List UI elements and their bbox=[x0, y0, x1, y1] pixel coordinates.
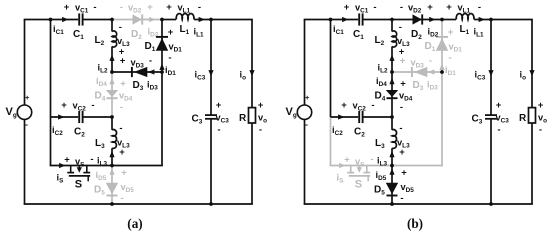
svg-text:D3: D3 bbox=[133, 80, 144, 92]
inductor L1 (b) bbox=[456, 14, 474, 37]
label vL3 of L3 (b) bbox=[397, 123, 410, 158]
wire switch row (a) bbox=[50, 165, 112, 167]
capacitor C1 (b) bbox=[353, 13, 364, 41]
svg-text:+: + bbox=[258, 100, 264, 111]
svg-text:-: - bbox=[198, 2, 201, 13]
node C1-L2 junction (b) bbox=[390, 18, 394, 22]
svg-text:io: io bbox=[520, 70, 527, 82]
current arrow iC1 (b) bbox=[333, 17, 349, 36]
label + vD5 - (b) bbox=[400, 168, 414, 205]
label + vS - (b) bbox=[344, 154, 373, 169]
wire bottom rail (b) bbox=[304, 203, 533, 205]
svg-text:Vg: Vg bbox=[286, 106, 297, 119]
svg-text:+: + bbox=[344, 2, 350, 13]
svg-text:C2: C2 bbox=[74, 127, 85, 139]
svg-text:-: - bbox=[400, 2, 403, 13]
svg-text:-: - bbox=[91, 100, 94, 111]
resistor R (a) bbox=[239, 108, 256, 124]
node C3-bottom junction (a) bbox=[209, 202, 213, 206]
current arrow iD5 (b) bbox=[376, 168, 395, 182]
wire top-left from Vg to C1 left plate (b) bbox=[304, 19, 359, 21]
svg-text:iD1: iD1 bbox=[165, 65, 176, 77]
label + vo - (a) bbox=[258, 100, 267, 136]
svg-text:+: + bbox=[341, 100, 347, 111]
wire C2 row right (a) bbox=[83, 116, 112, 118]
current arrow iD1 (b) bbox=[439, 64, 456, 78]
svg-text:(b): (b) bbox=[407, 216, 423, 231]
svg-text:L2: L2 bbox=[375, 35, 385, 47]
svg-text:-: - bbox=[119, 22, 122, 33]
diode D2 (b) bbox=[411, 14, 422, 41]
diode D4 (b) bbox=[375, 90, 399, 103]
current arrow iD4 (b) bbox=[376, 76, 395, 88]
wire Vg column lower (b) bbox=[304, 119, 306, 204]
svg-text:C2: C2 bbox=[354, 127, 365, 139]
wire C3 branch upper (a) bbox=[210, 20, 212, 115]
wire C1 right plate to node (b) bbox=[363, 19, 392, 21]
svg-text:+: + bbox=[120, 79, 126, 90]
svg-text:C1: C1 bbox=[353, 29, 364, 41]
node L1-C3 junction (b) bbox=[489, 18, 493, 22]
svg-text:+: + bbox=[166, 2, 172, 13]
svg-text:iD5: iD5 bbox=[376, 170, 387, 182]
label - vD2 + (a) bbox=[120, 2, 153, 15]
wire C3 branch lower (a) bbox=[210, 119, 212, 204]
svg-text:-: - bbox=[371, 100, 374, 111]
wire middle column to L2 (a) bbox=[111, 20, 113, 32]
svg-text:+: + bbox=[25, 93, 30, 102]
capacitor C3 (b) bbox=[472, 114, 498, 126]
label + vD4 - (a) bbox=[119, 79, 133, 114]
svg-text:-: - bbox=[373, 2, 376, 13]
wire L1 to top-right corner (b) bbox=[474, 19, 533, 21]
svg-text:iD4: iD4 bbox=[96, 76, 107, 88]
wire middle column to L2 (b) bbox=[391, 20, 393, 32]
svg-text:vC1: vC1 bbox=[75, 3, 89, 15]
current arrow iD1 (a) bbox=[159, 64, 176, 78]
current arrow iD3 (b) bbox=[427, 69, 438, 91]
svg-text:iC3: iC3 bbox=[195, 70, 206, 82]
svg-text:L3: L3 bbox=[375, 138, 385, 150]
node C2-D4-L3 junction (b) bbox=[390, 115, 394, 119]
svg-text:vD2: vD2 bbox=[408, 3, 422, 15]
wire Vg column upper (b) bbox=[304, 20, 306, 106]
svg-text:-: - bbox=[120, 2, 123, 13]
svg-text:iD3: iD3 bbox=[427, 80, 438, 92]
label + vC1 - (a) bbox=[64, 2, 97, 15]
svg-text:+: + bbox=[305, 93, 310, 102]
node C1-L2 junction (a) bbox=[110, 18, 114, 22]
capacitor C3 (a) bbox=[192, 114, 218, 126]
svg-text:-: - bbox=[448, 53, 451, 64]
svg-text:-: - bbox=[429, 56, 432, 67]
node L2-D3 junction (b) bbox=[390, 70, 394, 74]
wire L2 to middle node (a) bbox=[111, 47, 113, 73]
current arrow iL2 (a) bbox=[98, 55, 115, 75]
svg-text:io: io bbox=[240, 70, 247, 82]
svg-text:vC2: vC2 bbox=[353, 101, 367, 113]
svg-text:iL2: iL2 bbox=[98, 63, 108, 75]
svg-text:D2: D2 bbox=[131, 29, 142, 41]
label + vD3 - (a) bbox=[120, 56, 152, 70]
svg-text:vo: vo bbox=[258, 113, 267, 125]
svg-text:D4: D4 bbox=[375, 91, 386, 103]
svg-text:-: - bbox=[149, 56, 152, 67]
wire C1 right plate to node (a) bbox=[83, 19, 112, 21]
svg-text:iS: iS bbox=[337, 173, 345, 185]
node D3-D1 junction (a) bbox=[160, 70, 164, 74]
svg-text:vD4: vD4 bbox=[399, 91, 413, 103]
wire top D2 segment (a) bbox=[112, 19, 162, 21]
svg-text:iL1: iL1 bbox=[474, 27, 484, 39]
svg-text:S: S bbox=[75, 178, 82, 190]
wire middle D3 segment (a) bbox=[112, 71, 162, 73]
wire Vg column lower (a) bbox=[24, 119, 26, 204]
diode D4 (a) bbox=[95, 90, 119, 103]
wire D4 segment (b) bbox=[391, 72, 393, 117]
svg-text:-: - bbox=[119, 123, 122, 134]
wire Vg column upper (a) bbox=[24, 20, 26, 106]
wire L2 to middle node (b) bbox=[391, 47, 393, 73]
svg-text:iL2: iL2 bbox=[378, 63, 388, 75]
svg-text:D3: D3 bbox=[413, 80, 424, 92]
label vL3 of L3 (a) bbox=[117, 123, 130, 158]
svg-text:D4: D4 bbox=[95, 91, 106, 103]
svg-text:-: - bbox=[90, 154, 93, 165]
current arrow iL3 (a) bbox=[97, 151, 115, 168]
wire D5 segment (b) bbox=[391, 166, 393, 205]
current arrow io (b) bbox=[520, 70, 535, 82]
inductor L3 (b) bbox=[375, 130, 397, 151]
svg-text:-: - bbox=[400, 102, 403, 113]
label + vD1 - (b) bbox=[448, 27, 463, 64]
node top-left junction (a) bbox=[49, 18, 53, 22]
svg-text:vo: vo bbox=[538, 113, 547, 125]
svg-text:iC3: iC3 bbox=[475, 70, 486, 82]
wire C2 row left (a) bbox=[51, 116, 79, 118]
wire switch row (b) bbox=[330, 165, 392, 167]
svg-text:-: - bbox=[217, 125, 220, 136]
diode D5 (b) bbox=[374, 183, 398, 197]
svg-text:vS: vS bbox=[75, 157, 85, 169]
svg-text:-: - bbox=[399, 22, 402, 33]
svg-text:-: - bbox=[370, 154, 373, 165]
svg-text:+: + bbox=[168, 27, 174, 38]
current arrow iC3 (a) bbox=[195, 70, 214, 82]
node D3-D1 junction (b) bbox=[440, 70, 444, 74]
svg-text:-: - bbox=[400, 193, 403, 204]
wire C3 branch lower (b) bbox=[490, 119, 492, 204]
svg-text:S: S bbox=[355, 178, 362, 190]
current arrow iD2 (a) bbox=[148, 17, 159, 39]
label + vC3 - (b) bbox=[496, 100, 510, 136]
wire left branch lower (a) bbox=[50, 117, 52, 166]
svg-text:iC2: iC2 bbox=[332, 125, 343, 137]
svg-text:R: R bbox=[519, 113, 527, 124]
svg-text:L1: L1 bbox=[180, 24, 190, 36]
inductor L2 (b) bbox=[375, 31, 397, 47]
svg-text:+: + bbox=[121, 168, 127, 179]
wire top D2 segment (b) bbox=[392, 19, 442, 21]
wire right of switch vertical (b) bbox=[441, 72, 443, 166]
node top-left junction (b) bbox=[329, 18, 333, 22]
wire right of switch vertical (a) bbox=[161, 72, 163, 166]
node D2-D1-L1 junction (a) bbox=[160, 18, 164, 22]
svg-text:+: + bbox=[64, 154, 70, 165]
wire L3 to switch node (a) bbox=[111, 148, 113, 165]
wire R branch lower (a) bbox=[251, 123, 253, 204]
svg-text:vD2: vD2 bbox=[128, 3, 142, 15]
svg-text:R: R bbox=[239, 113, 247, 124]
svg-text:iS: iS bbox=[57, 173, 65, 185]
diode D2 (a) bbox=[131, 14, 142, 41]
svg-text:+: + bbox=[64, 2, 70, 13]
wire D4 segment (a) bbox=[111, 72, 113, 117]
voltage source Vg (a) bbox=[6, 93, 32, 129]
svg-text:-: - bbox=[120, 193, 123, 204]
wire D5 segment (a) bbox=[111, 166, 113, 205]
node D5-bottom junction (a) bbox=[110, 202, 114, 206]
label - vD2 + (b) bbox=[400, 2, 433, 15]
diode D3 (a) bbox=[132, 67, 147, 92]
current arrow iD4 (a) bbox=[96, 76, 115, 88]
svg-text:C1: C1 bbox=[73, 29, 84, 41]
svg-text:+: + bbox=[446, 2, 452, 13]
inductor L1 (a) bbox=[176, 14, 194, 37]
node L2-D3 junction (a) bbox=[110, 70, 114, 74]
wire C2 node to L3 (b) bbox=[391, 117, 393, 130]
label + vD5 - (a) bbox=[120, 168, 134, 205]
label + vS - (a) bbox=[64, 154, 93, 169]
capacitor C1 (a) bbox=[73, 13, 84, 41]
svg-text:-: - bbox=[93, 2, 96, 13]
svg-text:L2: L2 bbox=[95, 35, 105, 47]
wire left branch lower (b) bbox=[330, 117, 332, 166]
current arrow iC2 (b) bbox=[332, 114, 345, 137]
wire top-left from Vg to C1 left plate (a) bbox=[24, 19, 79, 21]
svg-text:iD1: iD1 bbox=[445, 65, 456, 77]
current arrow iC3 (b) bbox=[475, 70, 494, 82]
wire C2 node to L3 (a) bbox=[111, 117, 113, 130]
wire D1 segment (b) bbox=[441, 20, 443, 73]
current arrow iC2 (a) bbox=[52, 114, 65, 137]
wire C3 branch upper (b) bbox=[490, 20, 492, 115]
label + vD4 - (b) bbox=[399, 79, 413, 114]
svg-text:(a): (a) bbox=[127, 216, 142, 231]
svg-text:+: + bbox=[538, 100, 544, 111]
svg-text:D5: D5 bbox=[94, 185, 105, 197]
svg-text:iL1: iL1 bbox=[194, 27, 204, 39]
svg-text:+: + bbox=[399, 147, 405, 158]
current arrow iL3 (b) bbox=[377, 151, 395, 168]
svg-text:D5: D5 bbox=[374, 185, 385, 197]
svg-text:-: - bbox=[305, 119, 308, 129]
wire top node to L1 (a) bbox=[162, 19, 176, 21]
svg-text:iD2: iD2 bbox=[428, 27, 439, 39]
svg-text:vC3: vC3 bbox=[496, 113, 510, 125]
svg-text:C3: C3 bbox=[192, 114, 203, 126]
svg-text:+: + bbox=[119, 147, 125, 158]
current arrow iD2 (b) bbox=[428, 17, 439, 39]
node L1-C3 junction (a) bbox=[209, 18, 213, 22]
wire D1 segment (a) bbox=[161, 20, 163, 73]
svg-text:+: + bbox=[344, 154, 350, 165]
svg-text:iD4: iD4 bbox=[376, 76, 387, 88]
label + vL1 - (a) bbox=[166, 2, 201, 15]
node L3-S-D5 junction (a) bbox=[110, 164, 114, 168]
svg-text:+: + bbox=[427, 2, 433, 13]
svg-text:+: + bbox=[61, 100, 67, 111]
svg-text:-: - bbox=[478, 2, 481, 13]
svg-text:iC1: iC1 bbox=[53, 24, 64, 36]
node L3-S-D5 junction (b) bbox=[390, 164, 394, 168]
svg-text:iC2: iC2 bbox=[52, 125, 63, 137]
resistor R (b) bbox=[519, 108, 536, 124]
current arrow iL1 (b) bbox=[474, 17, 486, 39]
label + vL1 - (b) bbox=[446, 2, 481, 15]
wire R branch upper (b) bbox=[531, 20, 533, 108]
svg-text:iC1: iC1 bbox=[333, 24, 344, 36]
wire C2 row right (b) bbox=[363, 116, 392, 118]
wire C2 row left (b) bbox=[331, 116, 359, 118]
label + vD3 - (b) bbox=[400, 56, 432, 70]
wire R branch upper (a) bbox=[251, 20, 253, 108]
svg-text:D2: D2 bbox=[411, 29, 422, 41]
diode D1 (a) bbox=[145, 37, 169, 53]
diode D5 (a) bbox=[94, 183, 118, 197]
label vL3 of L2 (b) bbox=[397, 22, 410, 58]
wire left branch upper (a) bbox=[50, 20, 52, 118]
svg-text:+: + bbox=[401, 168, 407, 179]
wire right of switch horizontal (a) bbox=[112, 165, 163, 167]
capacitor C2 (a) bbox=[74, 111, 85, 139]
svg-text:iD5: iD5 bbox=[96, 170, 107, 182]
diode D3 (b) bbox=[412, 67, 427, 92]
wire top node to L1 (b) bbox=[442, 19, 456, 21]
wire left branch upper (b) bbox=[330, 20, 332, 118]
wire middle D3 segment (b) bbox=[392, 71, 442, 73]
svg-text:L3: L3 bbox=[95, 138, 105, 150]
inductor L3 (a) bbox=[95, 130, 117, 151]
svg-text:+: + bbox=[399, 47, 405, 58]
svg-text:+: + bbox=[120, 56, 126, 67]
inductor L2 (a) bbox=[95, 31, 117, 47]
current arrow iS (a) bbox=[57, 163, 66, 185]
svg-text:C3: C3 bbox=[472, 114, 483, 126]
wire R branch lower (b) bbox=[531, 123, 533, 204]
svg-text:-: - bbox=[497, 125, 500, 136]
svg-text:vC3: vC3 bbox=[216, 113, 230, 125]
svg-text:+: + bbox=[400, 79, 406, 90]
svg-text:L1: L1 bbox=[460, 24, 470, 36]
label + vC2 - (a) bbox=[61, 100, 94, 113]
label + vD1 - (a) bbox=[168, 27, 183, 64]
current arrow iD5 (a) bbox=[96, 168, 115, 182]
label + vC2 - (b) bbox=[341, 100, 374, 113]
current arrow iL2 (b) bbox=[378, 55, 395, 75]
node D2-D1-L1 junction (b) bbox=[440, 18, 444, 22]
current arrow iS (b) bbox=[337, 163, 346, 185]
capacitor C2 (b) bbox=[354, 111, 365, 139]
voltage source Vg (b) bbox=[286, 93, 312, 129]
current arrow io (a) bbox=[240, 70, 255, 82]
svg-text:D1: D1 bbox=[425, 41, 436, 53]
node D5-bottom junction (b) bbox=[390, 202, 394, 206]
svg-text:+: + bbox=[147, 2, 153, 13]
svg-text:-: - bbox=[120, 102, 123, 113]
current arrow iL1 (a) bbox=[194, 17, 206, 39]
svg-text:D1: D1 bbox=[145, 41, 156, 53]
svg-text:+: + bbox=[496, 100, 502, 111]
svg-text:-: - bbox=[259, 125, 262, 136]
wire L1 to top-right corner (a) bbox=[194, 19, 253, 21]
diode D1 (b) bbox=[425, 37, 449, 53]
wire right of switch horizontal (b) bbox=[392, 165, 443, 167]
label + vC3 - (a) bbox=[216, 100, 230, 136]
svg-text:vC2: vC2 bbox=[73, 101, 87, 113]
svg-text:+: + bbox=[448, 27, 454, 38]
svg-text:-: - bbox=[539, 125, 542, 136]
svg-text:vC1: vC1 bbox=[355, 3, 369, 15]
switch S (a) bbox=[67, 166, 90, 191]
node C3-bottom junction (b) bbox=[489, 202, 493, 206]
svg-text:vD4: vD4 bbox=[119, 91, 133, 103]
svg-text:-: - bbox=[25, 119, 28, 129]
switch S (b) bbox=[347, 166, 370, 191]
current arrow iD3 (a) bbox=[147, 69, 158, 91]
label + vC1 - (b) bbox=[344, 2, 377, 15]
svg-text:-: - bbox=[399, 123, 402, 134]
label + vo - (b) bbox=[538, 100, 547, 136]
current arrow iC1 (a) bbox=[53, 17, 69, 36]
svg-text:vS: vS bbox=[355, 157, 365, 169]
label vL3 of L2 (a) bbox=[117, 22, 130, 58]
svg-text:+: + bbox=[216, 100, 222, 111]
wire bottom rail (a) bbox=[24, 203, 253, 205]
svg-text:-: - bbox=[168, 53, 171, 64]
svg-text:iD3: iD3 bbox=[147, 80, 158, 92]
wire L3 to switch node (b) bbox=[391, 148, 393, 165]
node C2-D4-L3 junction (a) bbox=[110, 115, 114, 119]
svg-text:Vg: Vg bbox=[6, 106, 17, 119]
